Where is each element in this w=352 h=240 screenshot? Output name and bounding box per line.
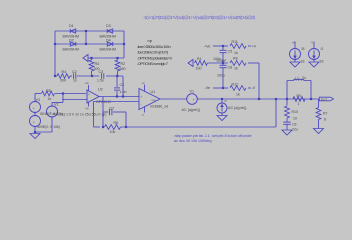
wire feedback left vertical x103	[102, 97, 104, 128]
voltage source V2	[47, 106, 58, 117]
svg-text:R10: R10	[292, 110, 298, 114]
resistor R7	[316, 108, 321, 120]
U2 V- power pin	[88, 102, 90, 106]
wire corner x123 to U2 out	[122, 76, 124, 97]
wire mid vertical x86	[85, 31, 87, 44]
wire V2 branch v	[62, 94, 64, 103]
capacitor C6	[283, 121, 291, 123]
svg-text:+V: +V	[252, 45, 257, 49]
wire I1 stub	[313, 42, 315, 49]
svg-text:AC {a(prb)}: AC {a(prb)}	[228, 106, 247, 110]
wire U1 +in feedback vertical	[93, 102, 95, 128]
junction	[54, 43, 56, 45]
inductor L1	[287, 79, 311, 80]
wire +Ve rail	[213, 45, 228, 47]
wire I1 to gnd	[313, 60, 315, 63]
svg-text:np: np	[148, 38, 153, 43]
wire -Ve rail	[213, 87, 228, 89]
wire C7 right	[113, 111, 126, 113]
wire main output y99	[160, 98, 319, 100]
op-amp U1 lm3886	[139, 89, 160, 110]
current source I2 (AC probe)	[217, 103, 227, 113]
wire row A (D1/D3)	[55, 30, 124, 32]
capacitor C5 lead	[222, 46, 224, 50]
ground (I5)	[290, 62, 300, 67]
svg-text:.tran 0 5500u 500u 100n: .tran 0 5500u 500u 100n	[137, 44, 170, 49]
svg-text:R9: R9	[297, 94, 302, 98]
current source I5	[290, 49, 301, 60]
svg-text:300: 300	[60, 78, 66, 82]
svg-text:; step param prb list -1 1 ; s: ; step param prb list -1 1 ; set prb=0 t…	[173, 133, 253, 138]
wire V3 top stub	[34, 94, 36, 102]
wire rail y127 to output tap	[121, 126, 277, 128]
svg-text:R5: R5	[46, 89, 51, 93]
wire I5 stub	[294, 42, 296, 49]
diode D2	[70, 42, 76, 46]
svg-text:SINE(0 .9 10k): SINE(0 .9 10k)	[37, 125, 60, 129]
wire rail y58	[88, 57, 124, 59]
svg-text:.OPTIONS plotwinsize=0: .OPTIONS plotwinsize=0	[137, 55, 173, 60]
junction	[85, 43, 87, 45]
svg-text:out: out	[152, 98, 156, 102]
svg-text:R12: R12	[232, 82, 239, 86]
ground (rotated, GNDF)	[188, 60, 193, 67]
wire I2 to ground	[221, 113, 223, 116]
resistor R3	[89, 60, 94, 71]
capacitor C8	[220, 64, 227, 66]
svg-text:C7: C7	[110, 106, 115, 110]
svg-text:1k: 1k	[234, 67, 238, 71]
voltage source V6	[30, 116, 41, 127]
svg-text:+: +	[33, 106, 35, 110]
capacitor C2	[73, 73, 75, 79]
svg-text:+Ve: +Ve	[85, 82, 90, 85]
svg-text:BAV99HM: BAV99HM	[100, 47, 117, 51]
svg-text:1k: 1k	[48, 97, 52, 101]
svg-text:L1: L1	[295, 77, 299, 81]
net flag OUT	[319, 97, 333, 101]
wire feedback bottom rail y127	[94, 126, 101, 128]
ground (I2)	[217, 116, 227, 121]
svg-text:.four 20kHz 20 v(OUT): .four 20kHz 20 v(OUT)	[137, 50, 169, 55]
ground (I1)	[309, 62, 319, 67]
svg-text:2u: 2u	[302, 76, 306, 80]
wire to R5	[35, 93, 41, 95]
svg-text:-V: -V	[252, 86, 256, 90]
capacitor C5	[220, 49, 227, 51]
wire L1 left vertical	[286, 81, 288, 100]
svg-text:+: +	[88, 92, 90, 96]
capacitor C4 lead	[116, 76, 118, 87]
svg-text:10: 10	[293, 116, 297, 120]
svg-text:R2: R2	[121, 62, 126, 66]
resistor R9	[293, 97, 305, 102]
ground (rotated left) at rail y58	[83, 55, 88, 62]
svg-text:R1: R1	[197, 57, 202, 61]
wire to I2	[221, 99, 223, 103]
capacitor C4	[114, 87, 120, 89]
svg-text:PULSE(-1.5 0 1n 1n 25u 55u 0 1: PULSE(-1.5 0 1n 1n 25u 55u 0 1p)	[53, 112, 107, 116]
svg-text:+V: +V	[142, 82, 145, 85]
resistor R1	[195, 61, 208, 66]
wire to C7	[103, 111, 108, 113]
svg-text:-V: -V	[142, 114, 145, 117]
wire R8 right	[248, 62, 259, 64]
svg-text:U1: U1	[151, 90, 156, 94]
resistor R11	[230, 44, 246, 49]
wire feedback right vertical x126	[125, 112, 127, 127]
svg-text:100u: 100u	[217, 73, 225, 77]
voltage source V3	[30, 102, 41, 113]
wire right vertical x124	[123, 31, 125, 58]
resistor R6	[105, 125, 121, 130]
svg-text:AC {a(prb)}: AC {a(prb)}	[182, 108, 201, 112]
junction main/probe	[221, 98, 223, 100]
svg-text:33: 33	[301, 60, 305, 64]
svg-text:1n: 1n	[73, 78, 77, 82]
resistor R12	[230, 86, 246, 91]
wire left vertical x55	[54, 31, 56, 76]
wire V3-V6	[34, 113, 36, 116]
svg-text:R8: R8	[233, 57, 238, 61]
svg-text:lm3886_od: lm3886_od	[151, 104, 169, 108]
resistor R8	[230, 61, 246, 66]
svg-text:R4: R4	[62, 70, 67, 74]
diode D3	[107, 29, 113, 33]
svg-text:C5: C5	[228, 50, 233, 54]
wire GNDF rail	[208, 62, 229, 64]
svg-text:10k: 10k	[110, 130, 116, 134]
wire rail y76	[55, 75, 57, 77]
svg-text:GNDF: GNDF	[217, 59, 227, 63]
voltage source V1 (series probe)	[187, 94, 198, 105]
wire to R7	[318, 99, 320, 108]
svg-text:OUT: OUT	[321, 97, 328, 101]
svg-text:33: 33	[320, 60, 324, 64]
current source I1	[309, 49, 320, 60]
svg-text:8: 8	[324, 118, 326, 122]
svg-text:D1: D1	[69, 24, 74, 28]
wire R8 branch down x259	[258, 63, 260, 99]
svg-text:+: +	[33, 120, 35, 124]
resistor R10	[285, 106, 290, 118]
svg-text:C6: C6	[292, 123, 297, 127]
capacitor C7	[109, 109, 111, 116]
svg-text:+: +	[140, 95, 142, 99]
svg-text:C4: C4	[120, 83, 125, 87]
wire V2 bottom	[51, 117, 53, 132]
svg-text:D4: D4	[106, 39, 111, 43]
svg-text:D2: D2	[69, 39, 74, 43]
wire to R10	[286, 99, 288, 106]
svg-text:R11: R11	[232, 40, 238, 44]
svg-text:I1: I1	[321, 47, 324, 51]
svg-text:1k: 1k	[236, 92, 240, 96]
ground (zobel)	[282, 130, 292, 135]
resistor R2	[115, 60, 120, 71]
svg-text:.OPTIONS numdgt=7: .OPTIONS numdgt=7	[137, 61, 169, 66]
resistor R4	[57, 74, 70, 79]
wire row B (D2/D4)	[55, 43, 124, 45]
svg-text:U2: U2	[98, 88, 103, 92]
svg-text:1: 1	[298, 102, 300, 106]
wire L1 right vertical	[310, 81, 312, 100]
wire I5 to gnd	[294, 60, 296, 63]
wire U2 +in	[62, 99, 87, 101]
svg-text:I5: I5	[302, 47, 305, 51]
svg-text:-1(V-1(2*I(D1)@1*V(out)@1+V(ou: -1(V-1(2*I(D1)@1*V(out)@1+V(out)@2*I(D2)…	[143, 15, 256, 21]
U2 V+ power pin	[88, 85, 90, 91]
svg-text:-Ve: -Ve	[205, 86, 211, 90]
svg-text:680: 680	[120, 67, 126, 71]
svg-text:C2: C2	[72, 70, 77, 74]
svg-text:+Ve: +Ve	[204, 45, 210, 49]
diode D1	[70, 29, 76, 33]
svg-text:R6: R6	[114, 121, 119, 125]
junction	[123, 43, 125, 45]
U1 V+ power pin	[144, 85, 146, 92]
svg-text:+V: +V	[292, 41, 296, 45]
junction	[85, 30, 87, 32]
op-amp U2 OPA1611	[87, 90, 99, 103]
svg-text:C3: C3	[99, 70, 104, 74]
svg-text:1.5n: 1.5n	[97, 78, 104, 82]
svg-text:1k: 1k	[234, 51, 238, 55]
svg-text:+: +	[193, 98, 195, 102]
svg-text:BAV99HM: BAV99HM	[63, 47, 80, 51]
ground (load)	[314, 129, 324, 134]
svg-text:C8: C8	[228, 65, 233, 69]
ground (sources)	[30, 134, 40, 139]
junction V2 branch	[62, 92, 64, 94]
U1 V- power pin	[144, 107, 146, 113]
capacitor C8 lead	[222, 63, 224, 65]
svg-text:22u: 22u	[292, 127, 298, 131]
wire U1 -in (runs under OPA1611 text)	[94, 101, 140, 103]
svg-text:V1: V1	[190, 90, 195, 94]
wire join to ground	[35, 131, 52, 133]
resistor R5	[42, 91, 55, 96]
wire R5 to U2	[55, 93, 86, 95]
svg-text:V2: V2	[54, 103, 59, 107]
diode D4	[107, 42, 113, 46]
svg-text:100: 100	[196, 67, 202, 71]
svg-text:-V: -V	[311, 41, 314, 45]
svg-text:R7: R7	[323, 112, 328, 116]
junction ground	[34, 131, 36, 133]
wire V6 bottom	[34, 127, 36, 133]
svg-text:D3: D3	[106, 24, 111, 28]
wire V2 branch h	[52, 102, 63, 104]
svg-text:.ac dec 30 10k 100Meg: .ac dec 30 10k 100Meg	[173, 138, 211, 143]
wire feedback tap x276	[275, 99, 277, 127]
capacitor C3	[101, 73, 103, 79]
wire U2 out to U1	[99, 96, 139, 98]
svg-text:R3: R3	[95, 62, 100, 66]
